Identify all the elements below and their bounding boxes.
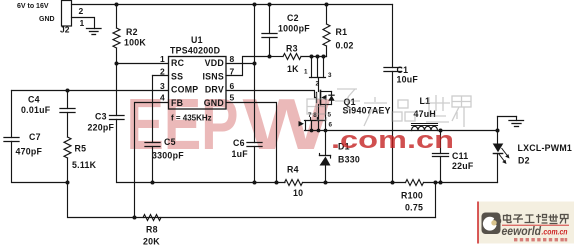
svg-text:10uF: 10uF xyxy=(397,75,419,85)
capacitor C1 xyxy=(384,5,402,183)
wire J2 pin1 to ground xyxy=(72,18,95,29)
transistor Q1 arrow xyxy=(321,95,326,100)
svg-text:0.02: 0.02 xyxy=(336,41,354,51)
wire VDD vertical line with C6 xyxy=(254,5,256,143)
diode D1 B330 xyxy=(320,131,331,183)
svg-text:W: W xyxy=(243,85,331,165)
svg-text:LXCL-PWM1: LXCL-PWM1 xyxy=(518,143,573,153)
wire Q1 drain bar xyxy=(305,120,326,122)
wire C4 to R5 xyxy=(67,113,69,138)
svg-text:47uH: 47uH xyxy=(414,109,437,119)
node COMP C4 xyxy=(66,89,70,93)
svg-text:GND: GND xyxy=(204,98,224,108)
svg-text:7: 7 xyxy=(230,67,235,77)
capacitor C2 xyxy=(262,34,277,38)
transistor Q1 mosfet body xyxy=(317,91,332,105)
node Q1 drain pins xyxy=(310,129,314,133)
svg-text:220pF: 220pF xyxy=(88,123,115,133)
wire R5 to rail2 xyxy=(68,158,436,218)
wire COMP pin3 rail xyxy=(12,90,169,92)
capacitor C11 xyxy=(433,131,449,183)
watermark gray chinese characters xyxy=(307,89,471,127)
svg-text:ISNS: ISNS xyxy=(202,72,224,82)
wire C4 branch xyxy=(67,91,69,109)
svg-text:C11: C11 xyxy=(452,151,468,161)
svg-text:C3: C3 xyxy=(95,112,107,122)
logo tiny red slogan xyxy=(514,238,567,241)
svg-text:C7: C7 xyxy=(29,132,41,142)
op-amp U1 box TPS40200D xyxy=(169,57,227,110)
svg-text:f = 435KHz: f = 435KHz xyxy=(171,114,212,123)
svg-text:22uF: 22uF xyxy=(452,161,474,171)
transistor Q1 body diode xyxy=(328,95,334,101)
svg-text:20K: 20K xyxy=(143,237,160,247)
node C11 top xyxy=(439,129,443,133)
resistor R2 xyxy=(113,5,120,64)
svg-text:C2: C2 xyxy=(287,13,299,23)
svg-text:1uF: 1uF xyxy=(232,149,249,159)
wire Q1 drain pin stubs xyxy=(306,118,326,131)
svg-text:R3: R3 xyxy=(286,44,298,54)
svg-text:DRV: DRV xyxy=(205,85,224,95)
node C5 gnd xyxy=(151,181,155,185)
svg-text:R8: R8 xyxy=(146,225,158,235)
wire Q1 source drops xyxy=(312,57,324,78)
logo chinese title pseudo glyphs xyxy=(504,214,569,224)
wire SS down to C5 xyxy=(152,76,154,143)
char zi xyxy=(335,89,360,111)
ground symbol at D2 xyxy=(509,121,524,127)
wire C3 to ground rail xyxy=(117,120,286,183)
node FB R8 xyxy=(133,216,137,220)
svg-text:1000pF: 1000pF xyxy=(278,24,310,34)
wire top rail Vin xyxy=(72,4,393,6)
svg-text:C5: C5 xyxy=(164,137,176,147)
svg-text:U1: U1 xyxy=(191,35,203,45)
svg-text:R5: R5 xyxy=(75,144,87,154)
svg-text:8: 8 xyxy=(230,54,235,64)
capacitor C4 xyxy=(60,109,75,113)
capacitor C7 xyxy=(4,138,19,142)
svg-text:VDD: VDD xyxy=(205,58,224,68)
resistor R5 xyxy=(64,137,71,158)
wire D2 branch xyxy=(498,117,517,183)
svg-text:1K: 1K xyxy=(287,64,299,74)
svg-text:B330: B330 xyxy=(338,155,360,165)
wire Q1 source bar xyxy=(310,77,326,79)
diode D1 triangle xyxy=(320,157,331,166)
svg-text:FB: FB xyxy=(171,98,183,108)
svg-text:1: 1 xyxy=(160,54,165,64)
wire rail2 riser to ground rail xyxy=(435,183,437,218)
svg-text:SS: SS xyxy=(171,72,183,82)
svg-text:RC: RC xyxy=(171,58,185,68)
svg-text:R100: R100 xyxy=(401,191,423,201)
node R5 corner xyxy=(66,181,70,185)
wire C7 to bottom corner xyxy=(12,142,68,183)
svg-text:4: 4 xyxy=(160,93,165,103)
svg-text:C4: C4 xyxy=(28,95,40,105)
svg-text:.com.cn: .com.cn xyxy=(331,127,454,154)
wire FB pin4 xyxy=(135,103,169,218)
svg-text:R2: R2 xyxy=(126,27,138,37)
node riser gnd xyxy=(434,181,438,185)
capacitor C3 xyxy=(110,116,125,120)
node C6 gnd xyxy=(253,181,257,185)
wire ISNS pin7 xyxy=(226,57,270,76)
ground symbol at J2 xyxy=(87,29,102,35)
wire SS pin2 xyxy=(153,75,169,77)
char dian xyxy=(307,93,327,120)
watermark EEPW letters xyxy=(127,85,331,165)
LED D2 arrows xyxy=(502,148,509,157)
resistor R8 xyxy=(143,215,161,221)
svg-text:0.75: 0.75 xyxy=(405,203,423,213)
node VDD stub xyxy=(253,62,257,66)
svg-text:5.11K: 5.11K xyxy=(72,160,97,170)
capacitor C6 xyxy=(247,143,262,147)
wire GND pin5 xyxy=(226,103,277,183)
svg-text:10: 10 xyxy=(293,188,303,198)
wire VDD pin8 stub xyxy=(226,63,255,65)
svg-text:3: 3 xyxy=(328,72,332,79)
node VDD top xyxy=(253,3,257,7)
wire ground rail right xyxy=(424,182,498,184)
wire switch node rail xyxy=(305,130,498,132)
svg-text:6: 6 xyxy=(230,81,235,91)
wire DRV pin6 to gate xyxy=(226,91,317,98)
svg-text:470pF: 470pF xyxy=(16,147,43,157)
wire Q1 bar to mosfet xyxy=(318,78,320,92)
node D1 gnd xyxy=(324,181,328,185)
resistor R100 xyxy=(406,180,424,186)
svg-text:R1: R1 xyxy=(336,27,348,37)
transistor Q1 lower arrow xyxy=(299,121,305,127)
svg-text:2: 2 xyxy=(316,81,320,88)
resistor R4 xyxy=(285,180,303,186)
svg-text:5: 5 xyxy=(230,93,235,103)
capacitor C5 xyxy=(145,143,160,147)
node C2 top xyxy=(268,3,272,7)
svg-text:0.01uF: 0.01uF xyxy=(21,105,51,115)
connector J2 xyxy=(62,1,72,27)
char chan xyxy=(364,97,387,126)
svg-text:2: 2 xyxy=(160,67,165,77)
wire RC pin1 xyxy=(117,63,169,65)
svg-text:1: 1 xyxy=(80,18,85,28)
logo eeworld block xyxy=(478,202,574,244)
svg-text:6V to 16V: 6V to 16V xyxy=(17,3,49,10)
node R1 top xyxy=(325,3,329,7)
svg-text:3: 3 xyxy=(160,81,165,91)
node GND pin xyxy=(275,181,279,185)
node ISNS R3 C2 xyxy=(268,55,272,59)
svg-text:C1: C1 xyxy=(397,65,409,75)
resistor R3 xyxy=(270,54,327,60)
node C1 gnd xyxy=(391,181,395,185)
svg-text:TPS40200D: TPS40200D xyxy=(170,46,220,56)
wire C6 to ground rail xyxy=(254,147,256,183)
svg-text:D2: D2 xyxy=(518,156,530,166)
svg-text:3300pF: 3300pF xyxy=(152,151,184,161)
wire C7 branch left xyxy=(11,91,13,138)
node C11 gnd xyxy=(439,181,443,185)
wire R2 node down to C3 xyxy=(116,64,118,116)
svg-text:C6: C6 xyxy=(233,138,245,148)
node R2 top xyxy=(115,3,119,7)
node Q1 source pins xyxy=(310,55,314,59)
svg-text:eeworld: eeworld xyxy=(502,224,542,238)
wire Q1 drain drops xyxy=(319,105,326,121)
svg-text:100K: 100K xyxy=(124,38,146,48)
svg-text:GND: GND xyxy=(39,16,55,23)
char pin xyxy=(392,100,415,121)
wire C5 to ground rail xyxy=(152,147,154,183)
resistor R1 xyxy=(323,5,330,57)
wire C2 to R3 node xyxy=(269,38,271,57)
inductor L1 xyxy=(412,124,438,131)
node D2 top xyxy=(496,129,500,133)
svg-text:R4: R4 xyxy=(287,165,299,175)
svg-text:.com.cn: .com.cn xyxy=(542,227,568,237)
svg-text:J2: J2 xyxy=(60,25,70,35)
svg-text:2: 2 xyxy=(79,6,84,16)
wire C2 branch xyxy=(269,5,271,34)
LED D2 triangle and bar xyxy=(493,144,510,165)
svg-text:Si9407AEY: Si9407AEY xyxy=(343,106,391,116)
svg-text:COMP: COMP xyxy=(171,85,198,95)
char shi xyxy=(424,95,450,122)
svg-text:1: 1 xyxy=(304,69,308,76)
node RC xyxy=(115,62,119,66)
char jie xyxy=(452,96,471,127)
wire ground rail mid xyxy=(303,182,406,184)
svg-text:5: 5 xyxy=(328,112,332,119)
